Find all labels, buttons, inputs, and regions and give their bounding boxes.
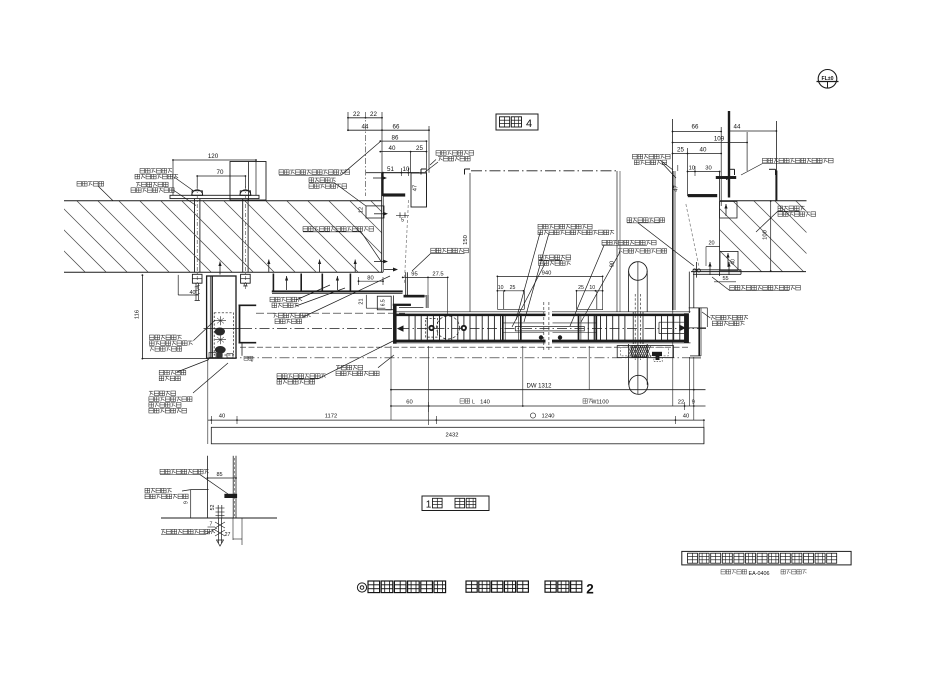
- label glazing bead: [581, 249, 667, 322]
- svg-text:27: 27: [225, 532, 231, 538]
- right box arrow 1: [724, 204, 727, 216]
- dim box 2432: [211, 427, 704, 444]
- handle plate in door: [633, 312, 643, 344]
- rot dim 150: [463, 235, 469, 245]
- floor hinge box: [617, 346, 673, 358]
- jamb small box: [377, 296, 391, 310]
- bottom solid right: [690, 357, 702, 359]
- corner bracket a: [421, 169, 427, 175]
- dim 100 rot right: [763, 200, 772, 272]
- label waterproof cover (2 lines): [336, 355, 394, 376]
- svg-text:40: 40: [700, 147, 707, 154]
- dim row2: [390, 399, 705, 407]
- svg-text:90: 90: [610, 261, 616, 267]
- label base plate (3 lines): [150, 320, 216, 351]
- post center line: [204, 328, 243, 330]
- opening head line: [471, 170, 617, 172]
- glazing profile right: [577, 291, 603, 310]
- corner bracket d: [769, 169, 776, 175]
- detail rot dim 52: [210, 505, 216, 511]
- label steel spacer (2 lines): [273, 276, 390, 324]
- door C channel top stub: [239, 304, 257, 306]
- svg-text:2: 2: [586, 582, 594, 597]
- svg-text:66: 66: [393, 123, 400, 130]
- svg-text:40: 40: [189, 290, 195, 296]
- through-bolt 1: [192, 186, 203, 301]
- label steel door frame right (2 lines): [633, 154, 677, 178]
- right box arrow 2: [726, 253, 729, 267]
- label through bolt (2 lines): [131, 182, 196, 205]
- dim 40+25: [379, 141, 427, 207]
- cert number line: [721, 570, 807, 578]
- svg-text:44: 44: [734, 123, 741, 130]
- dim 25+10 right: [576, 285, 604, 292]
- ext line x522: [522, 346, 524, 406]
- post top arrow: [218, 262, 221, 275]
- detail dim 27: [225, 518, 242, 545]
- door centerline dashdot: [242, 328, 706, 330]
- wall right top edge: [720, 200, 807, 202]
- svg-text:85: 85: [216, 472, 222, 478]
- dim 20 right: [706, 241, 720, 267]
- hinge blob 2: [215, 346, 226, 354]
- jamb lower thick bar: [393, 304, 411, 306]
- label L-36x20 right: [741, 158, 833, 175]
- right face vertical: [673, 171, 675, 310]
- dim 10+30 right: [687, 165, 721, 172]
- hinge cross mark 1: [215, 316, 226, 325]
- ext line left post bottom: [208, 358, 704, 444]
- svg-text:FL±0: FL±0: [821, 76, 833, 82]
- hinge post inner lines: [210, 276, 212, 358]
- ext line x589: [588, 346, 590, 390]
- door bottom thin: [393, 342, 691, 344]
- svg-text:109: 109: [714, 135, 725, 142]
- detail rot dim 9: [183, 501, 189, 504]
- title mark: [357, 583, 366, 592]
- svg-text:6.5: 6.5: [380, 299, 386, 306]
- label existing panel: [77, 182, 113, 201]
- lock box: [659, 315, 684, 341]
- dim 55 right: [714, 276, 736, 282]
- dim 10+25 left: [497, 285, 525, 292]
- door C channel vertical: [239, 305, 241, 344]
- right stub cross bar: [716, 176, 736, 179]
- fix arrow 3: [318, 260, 321, 273]
- weld arrow head frame 3: [374, 260, 388, 264]
- door top thick: [396, 314, 689, 317]
- jamb nose horiz: [386, 309, 394, 311]
- room label box 通路4: [496, 114, 538, 130]
- right weld bar: [688, 194, 717, 197]
- svg-text:55: 55: [722, 276, 728, 282]
- door hinge pin 2: [461, 325, 467, 331]
- jamb step thick bar: [404, 295, 425, 297]
- handle tube top: [629, 271, 648, 312]
- svg-text:940: 940: [542, 271, 552, 277]
- svg-text:W: W: [592, 400, 597, 406]
- label frame spacer (2 lines): [270, 285, 345, 308]
- handle bottom circle: [629, 375, 648, 394]
- steel head frame angle box: [411, 173, 427, 207]
- svg-text:150: 150: [463, 235, 469, 245]
- wall hatch left: [0, 201, 442, 272]
- jamb left reveal double: [406, 272, 408, 296]
- label L-20x20 right: [712, 277, 800, 291]
- door right arrow: [679, 325, 706, 332]
- bracket box on wall top: [230, 162, 266, 201]
- dim 86: [379, 134, 427, 142]
- right jamb step: [689, 308, 708, 356]
- svg-text:4: 4: [526, 118, 532, 130]
- dim 109: [672, 135, 748, 143]
- hinge post dashed liner: [214, 313, 233, 355]
- svg-text:66: 66: [692, 124, 699, 131]
- jamb step horiz: [406, 295, 427, 297]
- svg-text:60: 60: [406, 400, 412, 406]
- svg-text:25: 25: [510, 285, 516, 291]
- svg-text:30: 30: [705, 165, 711, 171]
- ext line x428 lower: [428, 346, 430, 425]
- wall right bottom edge: [691, 271, 806, 273]
- label ST t=3.2 left (2 lines): [309, 178, 366, 206]
- opening right reveal line: [617, 171, 620, 312]
- svg-text:1240: 1240: [542, 414, 555, 420]
- door left cap: [393, 305, 396, 344]
- right jamb reveal double: [689, 272, 694, 313]
- door left arrow: [397, 325, 404, 331]
- svg-text:7: 7: [210, 522, 213, 528]
- label D-8 screw (2 lines): [277, 341, 393, 384]
- svg-text:40: 40: [731, 259, 737, 265]
- door hinge circle: [437, 316, 460, 339]
- wall left bottom edge: [64, 271, 383, 273]
- hinge cross mark 2: [215, 335, 226, 344]
- fix arrow 5: [354, 260, 357, 273]
- svg-text:22: 22: [678, 400, 684, 406]
- fix arrow 2: [285, 276, 288, 290]
- rot dim 12 left: [359, 207, 365, 213]
- pocket channel 2: [322, 274, 350, 292]
- weld arrow head frame 1: [373, 176, 387, 180]
- detail dim 7: [208, 522, 216, 528]
- ext line door left bottom: [390, 346, 392, 420]
- handle dashed lines: [635, 294, 641, 360]
- dim row3: [208, 413, 705, 421]
- right weld arrow top: [717, 176, 731, 180]
- extension line x382: [381, 112, 383, 173]
- main title: [368, 581, 594, 597]
- wall left inner face double line: [382, 173, 384, 273]
- type label box: [682, 551, 851, 565]
- label backup material (2 lines): [516, 224, 614, 322]
- door hinge dashed box: [426, 318, 438, 337]
- svg-text:51: 51: [387, 166, 394, 173]
- svg-text:9: 9: [183, 501, 189, 504]
- svg-text:1: 1: [426, 500, 432, 511]
- anchor plate on wall: [170, 195, 259, 198]
- detail label D8 screw: [160, 469, 228, 494]
- dim 21 bracket: [359, 295, 386, 308]
- leaf line a: [256, 312, 405, 314]
- dim DW 1312: [390, 383, 705, 390]
- detail vert line: [207, 456, 209, 518]
- svg-text:DW 1312: DW 1312: [526, 383, 552, 389]
- label steel frame lower right (2 lines): [702, 312, 748, 326]
- svg-text:22: 22: [370, 111, 377, 118]
- svg-text:25: 25: [578, 285, 584, 291]
- glass stop left: [503, 314, 544, 343]
- dim 940 glass: [497, 271, 604, 310]
- right under-wall plate: [693, 270, 741, 275]
- lower dashdot 347: [240, 346, 690, 348]
- glass pane: [515, 327, 584, 331]
- detail black bar: [224, 494, 237, 498]
- door C channel bottom stub: [239, 342, 257, 344]
- rot dim 47 right: [674, 185, 680, 191]
- head frame top line: [366, 172, 426, 174]
- door hinge pin 1: [428, 325, 434, 331]
- dim 120: [172, 153, 257, 195]
- head frame small box: [366, 206, 384, 218]
- floor hinge tee: [652, 352, 662, 362]
- detail label base 2 lines: [145, 488, 209, 518]
- svg-text:25: 25: [416, 145, 423, 152]
- jamb lower thin: [399, 306, 423, 308]
- door top thin: [393, 311, 690, 313]
- label L-36x20 left: [279, 141, 381, 175]
- hinge blob 1: [215, 328, 225, 336]
- svg-text:70: 70: [217, 169, 224, 176]
- right frame box 2: [720, 251, 738, 270]
- rot dim 47 left: [413, 185, 419, 191]
- channel rail under wall: [272, 291, 403, 294]
- handle top circle: [629, 262, 648, 281]
- svg-text:100: 100: [763, 230, 769, 240]
- fix arrow 1: [267, 260, 270, 273]
- svg-text:47: 47: [413, 185, 419, 191]
- label stainless cap nut (2 lines): [135, 169, 193, 191]
- svg-text:10: 10: [689, 165, 695, 171]
- door bottom thick: [396, 340, 689, 343]
- detail label anchor: [161, 528, 217, 535]
- door right cap: [684, 314, 688, 343]
- dim 80 under wall: [358, 276, 384, 286]
- jamb nose vert: [392, 296, 394, 311]
- label side plate right: [627, 218, 694, 266]
- svg-text:20: 20: [708, 241, 714, 247]
- svg-text:80: 80: [367, 276, 373, 282]
- detail ground line: [161, 517, 277, 519]
- ext lines bottom right: [673, 310, 694, 420]
- dim 66 right: [672, 124, 723, 133]
- svg-text:12: 12: [359, 207, 365, 213]
- row3 ticks: [211, 416, 675, 424]
- detail dim 85: [207, 472, 237, 479]
- label ST right (2 lines): [756, 206, 816, 232]
- room label box 1F front room: [422, 496, 489, 511]
- handle tube bottom: [629, 344, 648, 385]
- door ladder ribs: [409, 316, 680, 340]
- detail frame double vert: [233, 456, 236, 518]
- dim 22+22: [347, 111, 383, 130]
- right ext verticals: [673, 119, 748, 206]
- dim 116: [135, 274, 144, 359]
- FL+-0 level mark: [817, 70, 839, 89]
- svg-text:40: 40: [389, 145, 396, 152]
- glazing profile left: [497, 291, 524, 310]
- dim 70: [196, 169, 246, 188]
- rot dim 40 right: [731, 259, 737, 265]
- through-bolt 2: [240, 186, 251, 290]
- label round cover (4 lines): [149, 363, 228, 413]
- svg-text:1100: 1100: [596, 400, 608, 406]
- wall left top edge: [64, 200, 382, 202]
- svg-text:5: 5: [401, 218, 404, 224]
- detail bolt body: [216, 505, 225, 518]
- svg-text:120: 120: [208, 153, 219, 160]
- weld arrow head frame 2: [374, 212, 388, 216]
- svg-text:27.5: 27.5: [432, 272, 443, 278]
- svg-text:L: L: [472, 400, 475, 406]
- svg-text:2432: 2432: [446, 432, 459, 438]
- label glass wired: [570, 240, 656, 326]
- bottom dashdot 357.8: [210, 357, 690, 359]
- svg-text:40: 40: [683, 414, 689, 420]
- head frame face thick: [381, 173, 383, 196]
- dim 51+10: [382, 166, 419, 176]
- right thick wall stub: [728, 111, 730, 198]
- detail anchor below: [215, 518, 225, 546]
- svg-text:116: 116: [135, 310, 141, 319]
- jamb step vert double: [426, 295, 428, 308]
- label rib 2.3t (2 lines): [159, 360, 209, 381]
- left gray dashed leader: [404, 200, 408, 284]
- label glass sealing (2 lines): [512, 255, 571, 327]
- rot dim 6.5: [380, 299, 386, 306]
- dim 95+27.5: [402, 272, 449, 315]
- right frame box 1: [720, 202, 737, 219]
- dim 25+40 right: [672, 147, 723, 155]
- wall hatch right: [649, 201, 867, 272]
- dim 5 small: [396, 212, 409, 223]
- hinge post outer box: [207, 276, 236, 358]
- post bottom tiny fittings: [209, 353, 253, 363]
- section break lines: [544, 302, 549, 352]
- svg-text:25: 25: [677, 147, 684, 154]
- glass stop right: [553, 314, 597, 343]
- handle center line: [637, 262, 639, 394]
- dim 40 bolt offset: [178, 275, 198, 296]
- label inspection plate left: [412, 248, 468, 271]
- pocket channel 1: [273, 274, 301, 292]
- fix arrow 4: [336, 276, 339, 290]
- svg-text:95: 95: [411, 272, 417, 278]
- opening left reveal line: [469, 173, 471, 312]
- corner bracket b: [465, 169, 471, 175]
- svg-text:21: 21: [359, 298, 365, 304]
- svg-text:L: L: [251, 359, 253, 363]
- svg-text:47: 47: [674, 185, 680, 191]
- svg-text:10: 10: [589, 285, 595, 291]
- row2 ticks: [429, 402, 685, 412]
- svg-text:22: 22: [353, 111, 360, 118]
- weld arrow wall corner: [384, 268, 398, 272]
- svg-text:1172: 1172: [325, 414, 337, 420]
- glass screw 1: [539, 335, 543, 339]
- label L-20x20 left: [303, 227, 382, 262]
- rot dim 90: [610, 261, 616, 267]
- svg-text:10: 10: [403, 166, 410, 173]
- door C channel lower tail: [241, 344, 243, 356]
- dim 66 left: [382, 123, 430, 172]
- wall right inner face line: [719, 172, 721, 277]
- svg-text:52: 52: [210, 505, 216, 511]
- svg-text:86: 86: [392, 134, 399, 141]
- label steel door frame top-left (2 lines): [425, 151, 474, 172]
- glass screw 2: [558, 335, 562, 339]
- right frame edge x776: [775, 121, 777, 201]
- right anchor bolt: [693, 262, 731, 278]
- head frame weld bar: [383, 194, 405, 197]
- head frame centerline: [365, 112, 367, 196]
- svg-text:40: 40: [219, 414, 225, 420]
- corner bracket c: [729, 169, 735, 175]
- svg-text:10: 10: [498, 285, 504, 291]
- svg-text:140: 140: [480, 400, 490, 406]
- right gray dashed leader: [686, 204, 699, 267]
- dim 44: [347, 123, 383, 131]
- bottom solid left: [142, 358, 209, 360]
- svg-text:EA-0406: EA-0406: [749, 571, 770, 577]
- svg-text:9: 9: [692, 400, 695, 406]
- floor hinge hatched block: [628, 346, 651, 357]
- dim 44 right: [728, 123, 777, 132]
